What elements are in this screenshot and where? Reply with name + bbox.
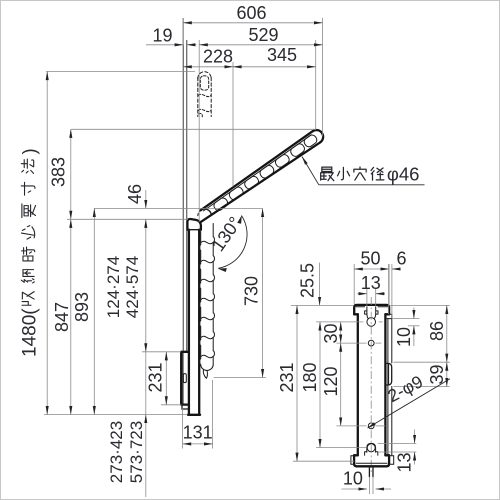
arm tip cap xyxy=(313,130,324,142)
arm slot 5 xyxy=(289,142,306,158)
ext fv tabtop-right y318.6 xyxy=(392,318,420,320)
ext fv 50 left xyxy=(353,264,355,305)
svg-text:228: 228 xyxy=(203,47,233,67)
down-arm wave 3 xyxy=(201,279,213,282)
fv bottom cap xyxy=(354,455,389,466)
fv top tab xyxy=(385,314,391,318)
svg-text:50: 50 xyxy=(360,249,380,269)
ext tip-right x322.5 xyxy=(322,18,324,137)
dim 19 left seg xyxy=(146,44,183,46)
svg-text:25.5: 25.5 xyxy=(298,263,318,298)
ext fv railtop right xyxy=(389,304,450,306)
svg-text:120: 120 xyxy=(321,366,341,396)
arm slot tip xyxy=(303,133,319,148)
arm slot hidden (at pivot) xyxy=(212,196,229,212)
dim 10 lower seg xyxy=(413,326,415,346)
fv hole4 boss feet xyxy=(365,452,378,455)
fv hole1 xyxy=(367,318,376,327)
ext fv 50 right xyxy=(388,264,390,305)
dim 50 line xyxy=(354,268,389,270)
leader 2-phi9 xyxy=(368,379,451,428)
dim 10b right seg xyxy=(376,488,391,490)
ext fv 13 b xyxy=(375,288,377,306)
fv side tab inner xyxy=(388,363,390,385)
stored arm wave 2 xyxy=(198,109,211,111)
dim 606 line xyxy=(183,22,322,24)
ext fv stem b xyxy=(372,477,374,494)
svg-text:10: 10 xyxy=(343,469,363,489)
svg-text:30: 30 xyxy=(321,323,341,343)
ext rail-bottom y414.6 xyxy=(44,414,188,416)
ext fv sidetab-bottom xyxy=(394,386,450,388)
svg-text:19: 19 xyxy=(152,26,172,46)
stored arm left edge xyxy=(197,78,199,117)
ext fv tick y325.8 xyxy=(408,325,420,327)
svg-text:893: 893 xyxy=(72,292,92,322)
fv top cap xyxy=(354,305,389,314)
arm slot 3 xyxy=(258,164,275,180)
ext fv archtop right xyxy=(378,442,417,444)
fv top cap bottom edges xyxy=(354,313,389,315)
stored arm slot xyxy=(200,76,208,90)
dim 231 left line xyxy=(165,352,167,405)
label minhole kanji 径 xyxy=(371,167,384,180)
ext fv 13 a xyxy=(366,288,368,306)
ext rail-right up xyxy=(198,40,200,222)
dim 228 line xyxy=(183,66,233,68)
ext fv hole1 left xyxy=(316,321,363,323)
fv hole3 xyxy=(368,423,374,429)
dim 130deg arc xyxy=(218,216,247,269)
dim 30 line xyxy=(340,322,342,343)
label 1480 text xyxy=(19,148,41,357)
arm upper edge xyxy=(201,131,313,210)
down-arm wave 5 xyxy=(201,317,213,320)
fv bottom tab right xyxy=(389,456,394,464)
ext downarm-bottom y377.6 xyxy=(214,377,266,379)
svg-text:573·723: 573·723 xyxy=(127,421,146,483)
ext 131 right xyxy=(212,380,214,449)
arm lower edge xyxy=(200,142,320,222)
ext fv 6 a xyxy=(388,264,390,314)
fv plate edge right xyxy=(391,319,393,456)
svg-text:6: 6 xyxy=(396,249,406,269)
svg-text:φ46: φ46 xyxy=(387,164,420,185)
rail left edge xyxy=(188,230,190,415)
ext fv sidetab-top xyxy=(394,361,450,363)
fv centerline xyxy=(370,297,372,472)
dim 10b left seg xyxy=(342,488,368,490)
svg-text:345: 345 xyxy=(267,45,297,65)
svg-text:86: 86 xyxy=(427,321,447,341)
svg-text:529: 529 xyxy=(248,25,278,45)
fv hole1 arch xyxy=(367,314,376,319)
svg-text:180: 180 xyxy=(300,362,320,392)
ext fv stem a xyxy=(368,477,370,494)
down-arm end tail xyxy=(203,370,207,379)
arm butt solid arc overlay xyxy=(201,209,212,214)
dim 120 line xyxy=(340,343,342,426)
fv body left edge xyxy=(357,314,359,455)
ext fv hole2 left xyxy=(336,342,366,344)
down-arm wave 4 xyxy=(201,298,213,301)
dim 10 upper seg xyxy=(413,308,415,319)
down-arm left edge xyxy=(199,232,200,366)
arm inner upper line xyxy=(204,135,312,211)
svg-text:1480(: 1480( xyxy=(20,308,41,357)
svg-text:730: 730 xyxy=(242,276,262,306)
bracket outline xyxy=(181,352,189,405)
dim 273-573 line xyxy=(145,415,147,497)
dim 6 seg xyxy=(392,268,400,270)
fv top cap inner line xyxy=(356,306,387,308)
ext fv hole4 left xyxy=(316,447,366,449)
fv body right inner line xyxy=(387,319,389,455)
ext tip-top x315.7 xyxy=(315,40,317,130)
svg-text:13: 13 xyxy=(395,452,415,472)
wire wall plate line left xyxy=(182,18,184,352)
svg-text:13: 13 xyxy=(361,273,381,293)
fv hole4 boss arch xyxy=(367,443,376,452)
svg-text:10: 10 xyxy=(394,327,414,347)
svg-text:131: 131 xyxy=(183,423,213,443)
rail bottom edge xyxy=(188,414,200,416)
dim 86 line xyxy=(446,305,448,362)
wire wall plate line right xyxy=(186,40,188,352)
stored arm right edge xyxy=(210,78,212,117)
label minhole kanji 穴 xyxy=(354,167,366,180)
down-arm bottom cap xyxy=(201,365,214,371)
down-arm right edge xyxy=(213,224,214,366)
dim 730 line xyxy=(262,208,264,377)
svg-text:124·274: 124·274 xyxy=(104,256,123,318)
ext tip-top-left y129 xyxy=(71,128,316,130)
dim 529 line xyxy=(199,44,322,46)
dim 131 line xyxy=(183,443,213,445)
ext fv railtop left xyxy=(291,304,354,306)
fv hole4 xyxy=(367,444,375,452)
ext arm-mid x233 xyxy=(232,62,234,187)
dim 893 line xyxy=(93,208,95,414)
rail right edge xyxy=(198,230,200,415)
dim 847 line xyxy=(70,219,72,414)
fv boss top left xyxy=(365,307,367,314)
svg-text:273·423: 273·423 xyxy=(107,421,126,483)
arm butt solid arc xyxy=(201,209,212,214)
dim 1480 line xyxy=(46,72,48,415)
fv side tab xyxy=(385,363,391,385)
fv bottom cap inner xyxy=(356,462,387,464)
dim 13b upper seg xyxy=(414,430,416,444)
dim 180 line xyxy=(319,322,321,448)
dim 13 left seg xyxy=(358,293,367,295)
svg-text:847: 847 xyxy=(52,302,72,332)
ext fv hole1 right xyxy=(379,321,383,323)
down-arm wave 6 xyxy=(201,336,213,339)
ext fv hole3 left xyxy=(336,425,366,427)
rail cap bottom line xyxy=(187,229,200,231)
svg-text:383: 383 xyxy=(49,157,69,187)
dim 124-424 line xyxy=(145,219,147,351)
svg-text:606: 606 xyxy=(236,3,266,23)
dim 130deg arrow bottom xyxy=(218,266,227,272)
arm butt hidden arc xyxy=(198,210,203,216)
svg-text:): ) xyxy=(19,148,40,154)
label minhole kanji 小 xyxy=(338,167,350,179)
fv body right edge xyxy=(384,314,386,455)
dim 130deg arrow top xyxy=(237,215,243,224)
ext fv hole3 right xyxy=(376,425,386,427)
fv hole2 xyxy=(368,340,374,346)
bracket foot xyxy=(182,405,189,409)
svg-text:424·574: 424·574 xyxy=(123,256,142,318)
ext bracket-top y351.8 xyxy=(142,351,181,353)
ext stored-top y71.5 xyxy=(46,71,195,73)
down-arm wave 2 xyxy=(201,260,213,263)
svg-text:231: 231 xyxy=(146,362,166,392)
stored arm wave 3 xyxy=(199,113,203,116)
ext 131 left xyxy=(182,407,184,449)
arm slot 4 xyxy=(274,153,291,169)
svg-text:46: 46 xyxy=(125,184,145,204)
bracket inner edge xyxy=(182,353,184,404)
dim 345 line xyxy=(233,66,316,68)
wire dim connector xyxy=(145,352,147,415)
svg-text:39: 39 xyxy=(427,364,447,384)
rail top cap (pivot housing) xyxy=(187,219,201,230)
dim 13 right seg xyxy=(376,293,385,295)
dim 46 upper seg xyxy=(145,190,147,208)
fv screw stem xyxy=(369,466,373,477)
fv bottom cap top edges xyxy=(354,454,389,456)
ext fv captop right xyxy=(378,451,417,453)
ext fv capbottom left xyxy=(293,460,354,462)
bracket slot xyxy=(183,374,186,383)
dim 13b lower seg xyxy=(414,452,416,465)
down-arm wave 1 xyxy=(201,241,213,244)
ext elbowtop y208.4 xyxy=(94,207,263,209)
dim 231 right line xyxy=(296,305,298,461)
dim 19 right seg xyxy=(187,44,197,46)
arm slot 1 xyxy=(228,186,245,202)
dim 25.5 line xyxy=(319,263,321,306)
stored arm wave 1 xyxy=(198,94,211,96)
stored arm top cap xyxy=(198,72,211,79)
down-arm wave 7 xyxy=(201,355,213,358)
ext plate-left up xyxy=(182,18,184,45)
ext fv 6 b xyxy=(391,264,393,318)
svg-text:231: 231 xyxy=(277,362,297,392)
fv boss top right xyxy=(376,307,378,314)
arm slot 2 xyxy=(243,175,260,191)
leader min-hole arrow xyxy=(302,157,319,185)
fv bottom tab left xyxy=(351,456,354,464)
ext bracket-bottom y404.8 xyxy=(161,404,181,406)
dim 383 line xyxy=(70,129,72,219)
leader min-hole underline xyxy=(319,184,425,186)
dim 39 line xyxy=(446,362,448,386)
ext pivot y219.3 xyxy=(67,218,188,220)
ext fv hole2 right xyxy=(376,342,382,344)
label minhole kanji 最 xyxy=(321,167,334,181)
